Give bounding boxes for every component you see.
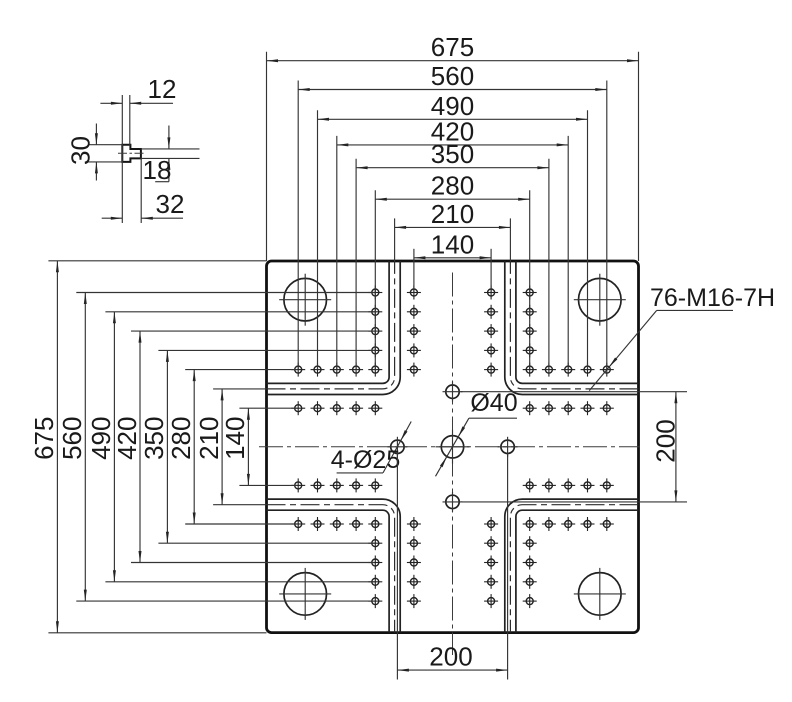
dimension 30 extension lines [89, 145, 124, 162]
dimension 18 text [143, 155, 172, 185]
label diameter40 text [470, 389, 517, 417]
dimension 200 bottom text [429, 642, 472, 672]
dimension 210 left extension lines [213, 389, 266, 505]
dimension 350 top extension lines [356, 159, 549, 370]
leader line 76-M16-7H [589, 310, 733, 390]
svg-text:350: 350 [431, 139, 474, 169]
cross-slot inner line top-right [505, 261, 639, 395]
M16 hole column x70 top-left [407, 286, 421, 377]
cross-slot inner line bottom-right [505, 499, 639, 632]
label 76-M16-7H text [650, 284, 775, 312]
mold hole diameter25 bottom [443, 492, 463, 512]
M16 hole row y140 top-left [291, 363, 363, 377]
leader line diameter40 [436, 418, 518, 476]
dimension 420 top text [431, 116, 474, 146]
dimension 140 top line [414, 256, 491, 259]
dimension 420 left line [139, 331, 142, 562]
dimension 675 top line [267, 59, 639, 62]
dimension 420 top extension lines [337, 136, 568, 370]
center hole diameter40 [436, 430, 470, 464]
svg-text:280: 280 [431, 171, 474, 201]
M16 hole column x140 bottom-right [523, 517, 537, 608]
dimension 210 top line [395, 226, 511, 229]
svg-text:18: 18 [143, 155, 172, 185]
detail section edge line left [121, 95, 123, 223]
svg-text:210: 210 [431, 199, 474, 229]
dimension 12 line [100, 102, 173, 105]
dimension 200 bottom line [397, 669, 507, 672]
M16 hole row y140 top-right [542, 363, 614, 377]
dimension 490 left line [113, 312, 116, 582]
dimension 490 top text [431, 91, 474, 121]
cross-slot inner line bottom-left [267, 499, 401, 632]
M16 hole row y140 bottom-left [291, 517, 363, 531]
horizontal centerline [259, 446, 640, 448]
dimension 675 left extension lines [48, 261, 266, 633]
tie-bar hole top-left [279, 274, 331, 326]
dimension 420 top line [337, 143, 568, 146]
cross-slot inner line top-left [267, 261, 401, 395]
dimension 200 bottom extension lines [397, 455, 507, 680]
svg-text:30: 30 [66, 136, 96, 165]
dimension 490 top extension lines [318, 110, 588, 369]
detail section centerline [118, 152, 146, 154]
dimension 560 left extension lines [76, 293, 375, 602]
dimension 420 left text [112, 417, 142, 460]
svg-text:140: 140 [220, 417, 250, 460]
dimension 210 top extension lines [395, 218, 511, 261]
dimension 490 left text [86, 417, 116, 460]
svg-text:675: 675 [29, 417, 59, 460]
dimension 280 left line [193, 370, 196, 524]
dimension 560 left line [84, 293, 87, 602]
dimension 280 top line [375, 198, 529, 201]
svg-text:Ø40: Ø40 [470, 389, 517, 417]
cross-slot mid line top-left [267, 261, 395, 389]
dimension 490 top line [318, 118, 588, 121]
detail section edge line right lower [140, 158, 142, 224]
detail section edge line right upper [129, 95, 131, 146]
tie-bar hole bottom-left [279, 568, 331, 620]
dimension 350 left line [166, 350, 169, 543]
dimension 140 left extension lines [239, 408, 297, 485]
M16 hole column x140 top-right [523, 286, 537, 377]
svg-text:32: 32 [156, 189, 185, 219]
detail section profile (plate edge cross-section) [122, 145, 141, 162]
cross-slot outer line bottom-right [516, 510, 639, 632]
dimension 12 text [148, 74, 177, 104]
svg-text:420: 420 [112, 417, 142, 460]
tie-bar hole bottom-right [574, 568, 626, 620]
dimension 140 top text [431, 229, 474, 259]
leader line 4-diameter25 [337, 422, 412, 473]
dimension 30 text [66, 136, 96, 165]
M16 hole row y70 top-left [291, 401, 382, 415]
cross-slot outer line top-left [267, 261, 390, 383]
svg-text:200: 200 [429, 642, 472, 672]
svg-text:350: 350 [139, 417, 169, 460]
M16 hole row y70 top-right [523, 401, 614, 415]
svg-text:560: 560 [57, 417, 87, 460]
dimension 420 left extension lines [131, 331, 375, 562]
dimension 30 line [95, 124, 98, 181]
svg-text:280: 280 [166, 417, 196, 460]
dimension 280 left text [166, 417, 196, 460]
M16 hole column x70 bottom-left [407, 517, 421, 608]
M16 hole column x70 top-right [484, 286, 498, 377]
cross-slot mid line top-right [510, 261, 638, 389]
mold hole diameter25 left [387, 437, 407, 457]
svg-text:76-M16-7H: 76-M16-7H [650, 284, 775, 312]
svg-text:140: 140 [431, 229, 474, 259]
tie-bar hole top-right [574, 274, 626, 326]
dimension 675 top extension lines [267, 52, 639, 261]
svg-text:12: 12 [148, 74, 177, 104]
dimension 140 left text [220, 417, 250, 460]
dimension 140 top extension lines [414, 249, 491, 293]
dimension 675 left text [29, 417, 59, 460]
svg-text:675: 675 [431, 32, 474, 62]
dimension 18 line [155, 126, 170, 182]
dimension 140 left line [247, 408, 250, 485]
dimension 560 top extension lines [298, 81, 607, 370]
mold hole diameter25 top [443, 382, 463, 402]
dimension 200 right line [674, 392, 677, 502]
dimension 32 line [102, 217, 183, 220]
dimension 210 left line [221, 389, 224, 505]
dimension 675 top text [431, 32, 474, 62]
cross-slot outer line bottom-left [267, 510, 390, 632]
dimension 280 top text [431, 171, 474, 201]
dimension 32 text [156, 189, 185, 219]
dimension 200 right text [650, 419, 680, 462]
dimension 280 left extension lines [185, 370, 298, 524]
M16 hole row y70 bottom-right [523, 478, 614, 492]
cross-slot mid line bottom-left [267, 505, 395, 633]
dimension 560 top text [431, 61, 474, 91]
plate outline [267, 261, 639, 633]
M16 hole row y140 bottom-right [542, 517, 614, 531]
dimension 350 top line [356, 166, 549, 169]
dimension 560 top line [298, 88, 607, 91]
M16 hole column x140 top-left [368, 286, 382, 377]
dimension 350 left extension lines [158, 350, 374, 543]
cross-slot outer line top-right [516, 261, 639, 383]
M16 hole row y70 bottom-left [291, 478, 382, 492]
dimension 200 right extension lines [461, 392, 688, 502]
dimension 210 top text [431, 199, 474, 229]
dimension 350 top text [431, 139, 474, 169]
vertical centerline [452, 273, 454, 656]
M16 hole column x140 bottom-left [368, 517, 382, 608]
svg-text:4-Ø25: 4-Ø25 [331, 446, 400, 474]
mold hole diameter25 right [498, 437, 518, 457]
dimension 18 extension lines [141, 149, 200, 159]
dimension 675 left line [56, 261, 59, 633]
dimension 490 left extension lines [105, 312, 374, 582]
dimension 350 left text [139, 417, 169, 460]
svg-text:560: 560 [431, 61, 474, 91]
dimension 210 left text [194, 417, 224, 460]
M16 hole column x70 bottom-right [484, 517, 498, 608]
dimension 560 left text [57, 417, 87, 460]
svg-text:200: 200 [650, 419, 680, 462]
label 4-diameter25 text [331, 446, 400, 474]
dimension 280 top extension lines [375, 190, 529, 369]
cross-slot mid line bottom-right [510, 505, 638, 633]
